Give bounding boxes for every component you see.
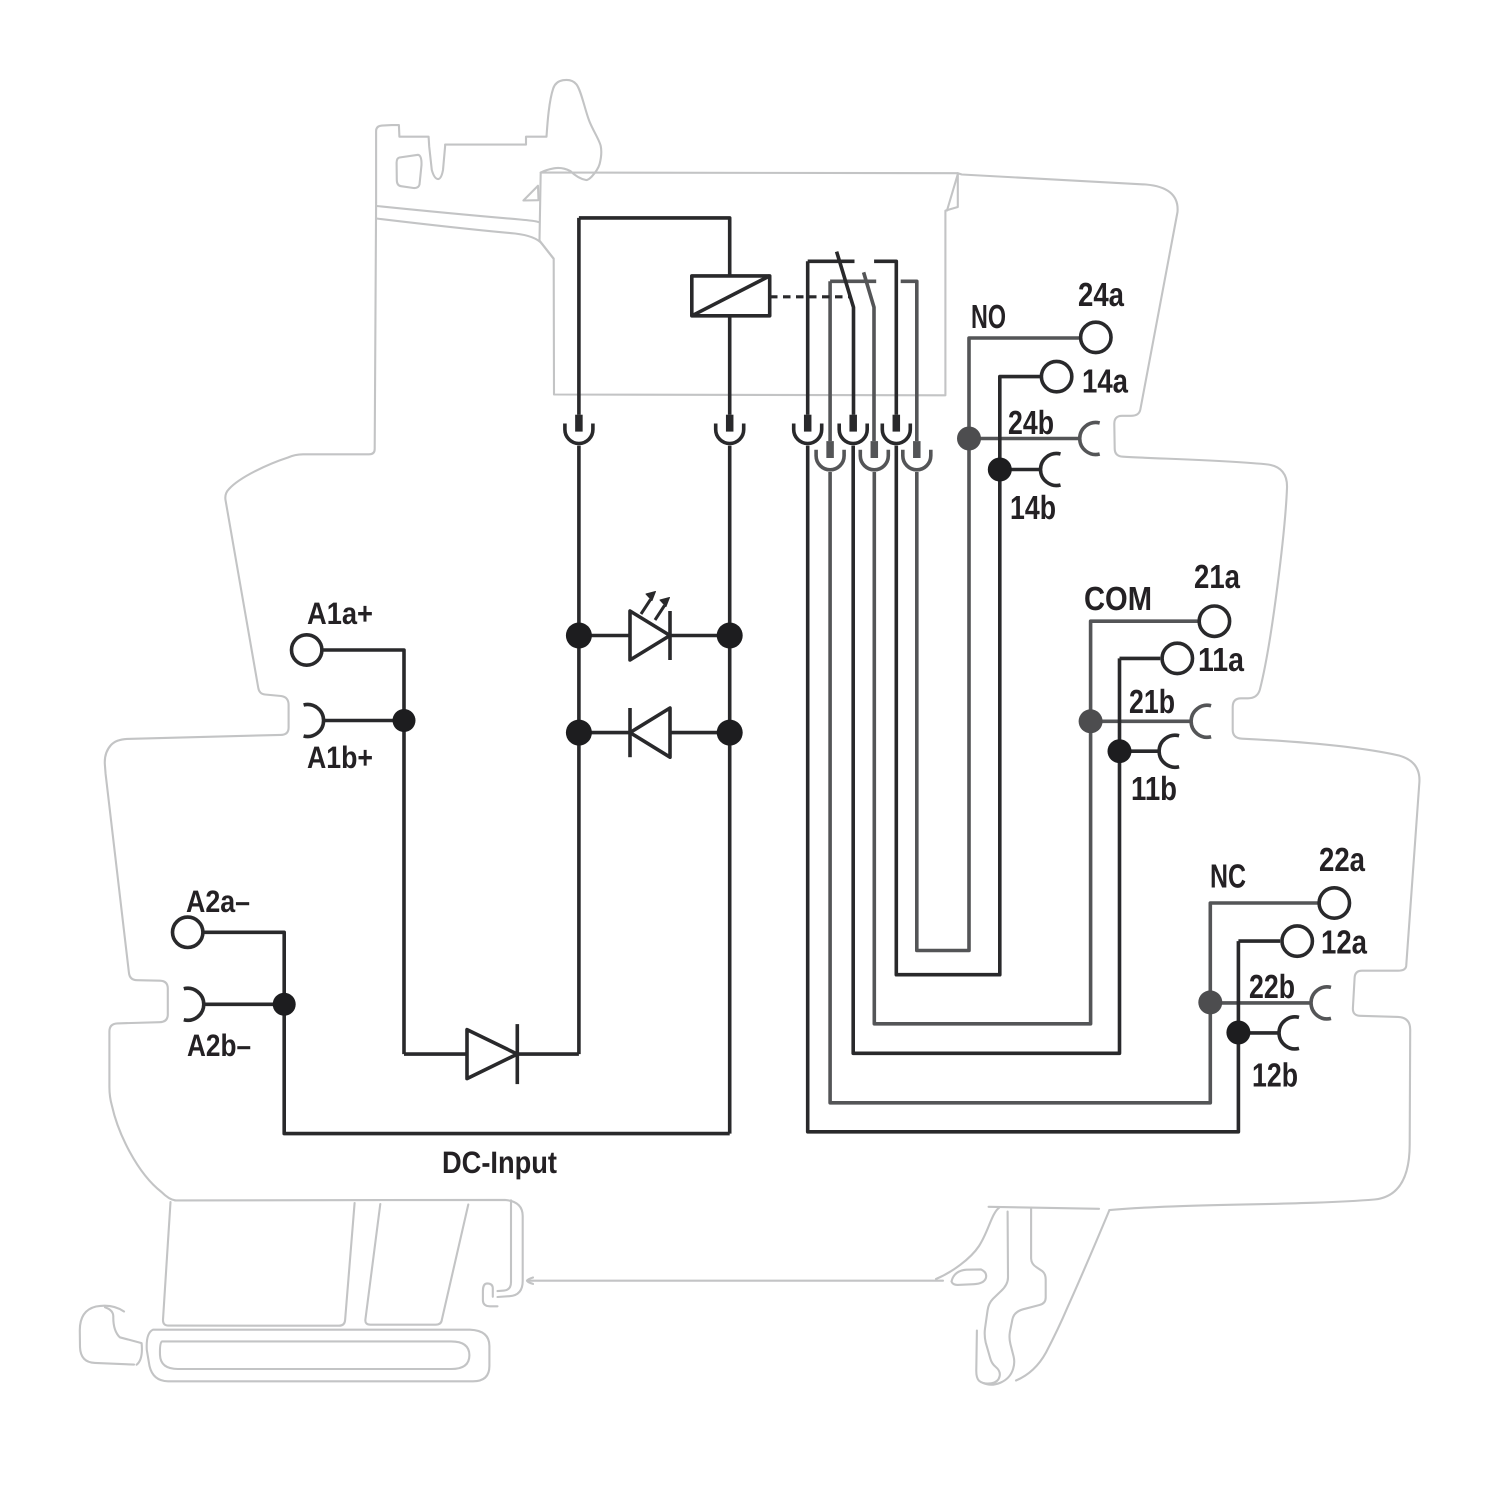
svg-text:DC-Input: DC-Input [442, 1145, 557, 1180]
svg-text:24a: 24a [1078, 277, 1124, 314]
svg-text:12a: 12a [1321, 925, 1367, 962]
svg-text:11b: 11b [1131, 771, 1177, 808]
svg-text:COM: COM [1084, 581, 1152, 618]
svg-text:A2b–: A2b– [187, 1028, 251, 1063]
svg-text:NC: NC [1210, 859, 1246, 896]
svg-text:24b: 24b [1008, 405, 1054, 442]
svg-text:NO: NO [971, 299, 1006, 336]
svg-text:A1a+: A1a+ [307, 596, 373, 631]
svg-text:A1b+: A1b+ [307, 740, 373, 775]
svg-text:11a: 11a [1198, 642, 1244, 679]
svg-text:12b: 12b [1252, 1058, 1298, 1095]
svg-text:21b: 21b [1129, 684, 1175, 721]
svg-text:14b: 14b [1010, 490, 1056, 527]
svg-text:21a: 21a [1194, 559, 1240, 596]
svg-text:22b: 22b [1249, 969, 1295, 1006]
svg-text:22a: 22a [1319, 842, 1365, 879]
svg-text:A2a–: A2a– [186, 884, 250, 919]
svg-text:14a: 14a [1082, 364, 1128, 401]
